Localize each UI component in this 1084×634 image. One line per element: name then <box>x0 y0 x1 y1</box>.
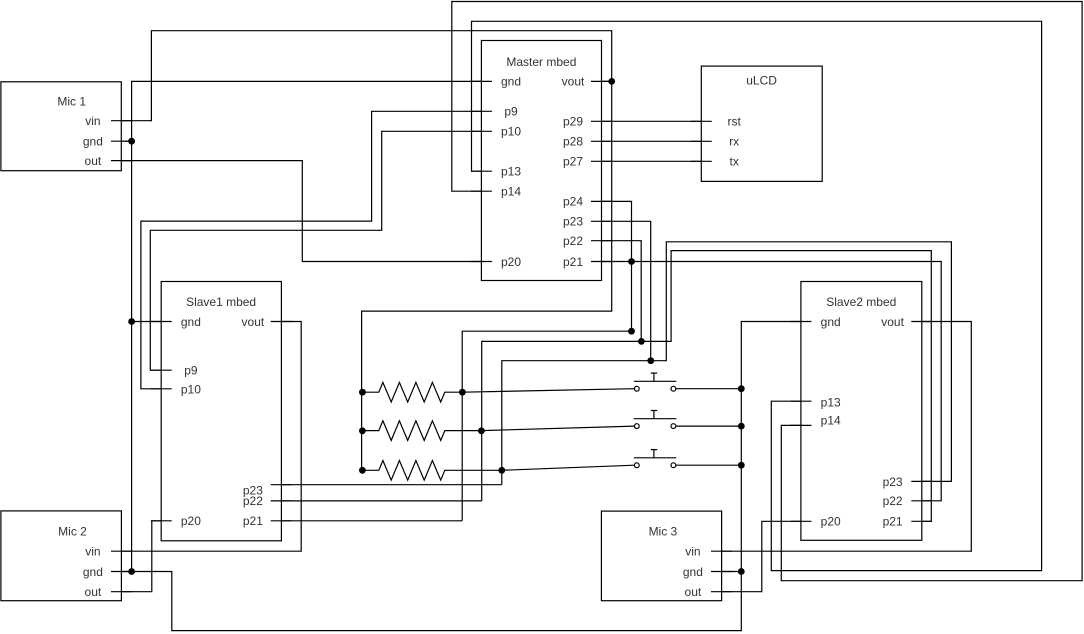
svg-text:p28: p28 <box>563 135 583 149</box>
svg-text:p21: p21 <box>563 255 583 269</box>
svg-text:gnd: gnd <box>501 75 521 89</box>
svg-text:uLCD: uLCD <box>746 74 777 88</box>
svg-text:out: out <box>85 154 102 168</box>
svg-text:p22: p22 <box>563 234 583 248</box>
svg-text:p22: p22 <box>883 494 903 508</box>
svg-text:p20: p20 <box>181 514 201 528</box>
svg-text:p24: p24 <box>563 195 583 209</box>
svg-text:vin: vin <box>85 545 100 559</box>
svg-text:p20: p20 <box>501 255 521 269</box>
svg-text:p14: p14 <box>821 414 841 428</box>
svg-text:p13: p13 <box>821 396 841 410</box>
svg-text:gnd: gnd <box>83 135 103 149</box>
svg-text:p23: p23 <box>563 215 583 229</box>
svg-text:p29: p29 <box>563 115 583 129</box>
svg-text:vout: vout <box>881 315 904 329</box>
svg-text:rx: rx <box>729 135 739 149</box>
svg-text:out: out <box>85 585 102 599</box>
svg-text:p9: p9 <box>504 105 518 119</box>
svg-text:Mic 3: Mic 3 <box>649 524 678 538</box>
svg-text:gnd: gnd <box>181 315 201 329</box>
svg-text:out: out <box>685 585 702 599</box>
svg-text:p22: p22 <box>243 494 263 508</box>
svg-text:p27: p27 <box>563 155 583 169</box>
svg-text:p9: p9 <box>184 364 198 378</box>
svg-text:Slave2 mbed: Slave2 mbed <box>826 295 896 309</box>
svg-text:p21: p21 <box>243 514 263 528</box>
svg-text:vin: vin <box>685 545 700 559</box>
svg-text:vout: vout <box>242 315 265 329</box>
svg-text:gnd: gnd <box>683 565 703 579</box>
svg-text:p21: p21 <box>883 514 903 528</box>
svg-text:Mic 1: Mic 1 <box>57 94 86 108</box>
svg-text:vout: vout <box>562 75 585 89</box>
svg-text:gnd: gnd <box>821 315 841 329</box>
svg-text:tx: tx <box>730 155 739 169</box>
svg-text:Mic 2: Mic 2 <box>58 524 87 538</box>
svg-text:gnd: gnd <box>83 565 103 579</box>
svg-text:p23: p23 <box>883 475 903 489</box>
svg-text:p20: p20 <box>821 514 841 528</box>
svg-text:p10: p10 <box>181 382 201 396</box>
svg-text:p13: p13 <box>501 165 521 179</box>
svg-text:p14: p14 <box>501 185 521 199</box>
svg-text:Master mbed: Master mbed <box>506 55 576 69</box>
svg-text:p10: p10 <box>501 125 521 139</box>
svg-text:vin: vin <box>85 114 100 128</box>
svg-text:rst: rst <box>728 115 742 129</box>
svg-text:Slave1 mbed: Slave1 mbed <box>186 295 256 309</box>
